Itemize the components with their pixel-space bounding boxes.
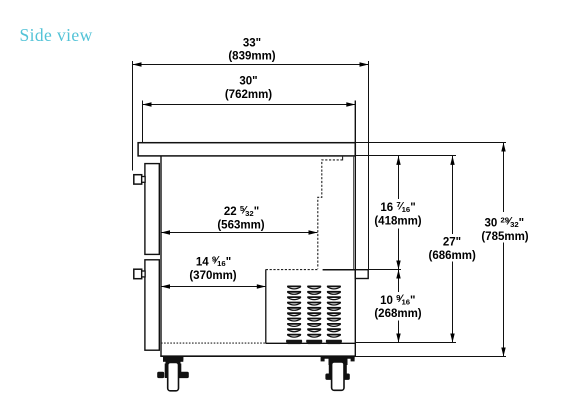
interior floor dashed line xyxy=(161,342,266,344)
dimension 10 9/16in line xyxy=(396,270,400,343)
condenser coil column 2 xyxy=(306,286,322,345)
dimension 33in extension right xyxy=(368,61,370,270)
condenser compartment top dashed xyxy=(266,269,319,271)
body right wall inner line xyxy=(353,156,355,270)
door panel 1 xyxy=(145,164,159,255)
rear connection box xyxy=(355,270,368,279)
svg-text:10 9⁄16": 10 9⁄16" xyxy=(380,293,415,307)
reference line bottom right xyxy=(356,356,506,358)
reference line rear box right xyxy=(369,269,402,271)
dimension 14 9/16in line xyxy=(161,284,266,288)
condenser coil column 3 xyxy=(326,286,342,345)
dimension 30in line xyxy=(143,102,356,106)
reference line countertop-top right xyxy=(355,142,506,144)
dimension 33in extension left xyxy=(132,61,134,171)
condenser compartment left wall xyxy=(265,269,267,343)
svg-text:27": 27" xyxy=(443,237,461,249)
svg-text:(686mm): (686mm) xyxy=(429,250,476,262)
svg-text:16 7⁄16": 16 7⁄16" xyxy=(380,200,415,214)
left caster xyxy=(157,357,189,391)
condenser base line xyxy=(266,342,356,344)
dimension 27in line xyxy=(450,156,454,343)
svg-text:Side view: Side view xyxy=(20,25,93,45)
svg-text:14 9⁄16": 14 9⁄16" xyxy=(196,254,231,268)
condenser compartment top solid xyxy=(323,269,356,271)
dimension 30in extension left xyxy=(142,101,144,143)
svg-text:(418mm): (418mm) xyxy=(374,215,421,227)
svg-text:(785mm): (785mm) xyxy=(481,231,528,243)
svg-text:(370mm): (370mm) xyxy=(189,270,236,282)
dimension 16 7/16in line xyxy=(396,156,400,270)
svg-text:(268mm): (268mm) xyxy=(374,308,421,320)
svg-text:22 5⁄32": 22 5⁄32" xyxy=(224,204,259,218)
svg-text:30": 30" xyxy=(239,75,257,87)
countertop xyxy=(138,143,355,156)
svg-text:33": 33" xyxy=(243,37,261,49)
dimension 33in line xyxy=(133,62,369,66)
svg-text:30 29⁄32": 30 29⁄32" xyxy=(484,215,524,229)
door panel 2 xyxy=(145,260,159,350)
body right wall xyxy=(354,101,356,357)
reference line countertop-bottom right xyxy=(355,155,456,157)
body bottom xyxy=(160,355,356,357)
svg-text:(563mm): (563mm) xyxy=(217,220,264,232)
dimension 30 25/32in line xyxy=(501,143,505,357)
hinge 1 xyxy=(134,175,142,184)
svg-text:(762mm): (762mm) xyxy=(225,89,272,101)
body left wall xyxy=(160,156,162,357)
dimension 22 5/32in line xyxy=(161,230,318,234)
reference line floor right xyxy=(355,342,456,344)
condenser coil column 1 xyxy=(286,286,302,345)
hinge 2 xyxy=(134,269,142,279)
svg-text:(839mm): (839mm) xyxy=(228,51,275,63)
interior duct dashed outline xyxy=(342,156,344,161)
right caster xyxy=(321,357,355,391)
